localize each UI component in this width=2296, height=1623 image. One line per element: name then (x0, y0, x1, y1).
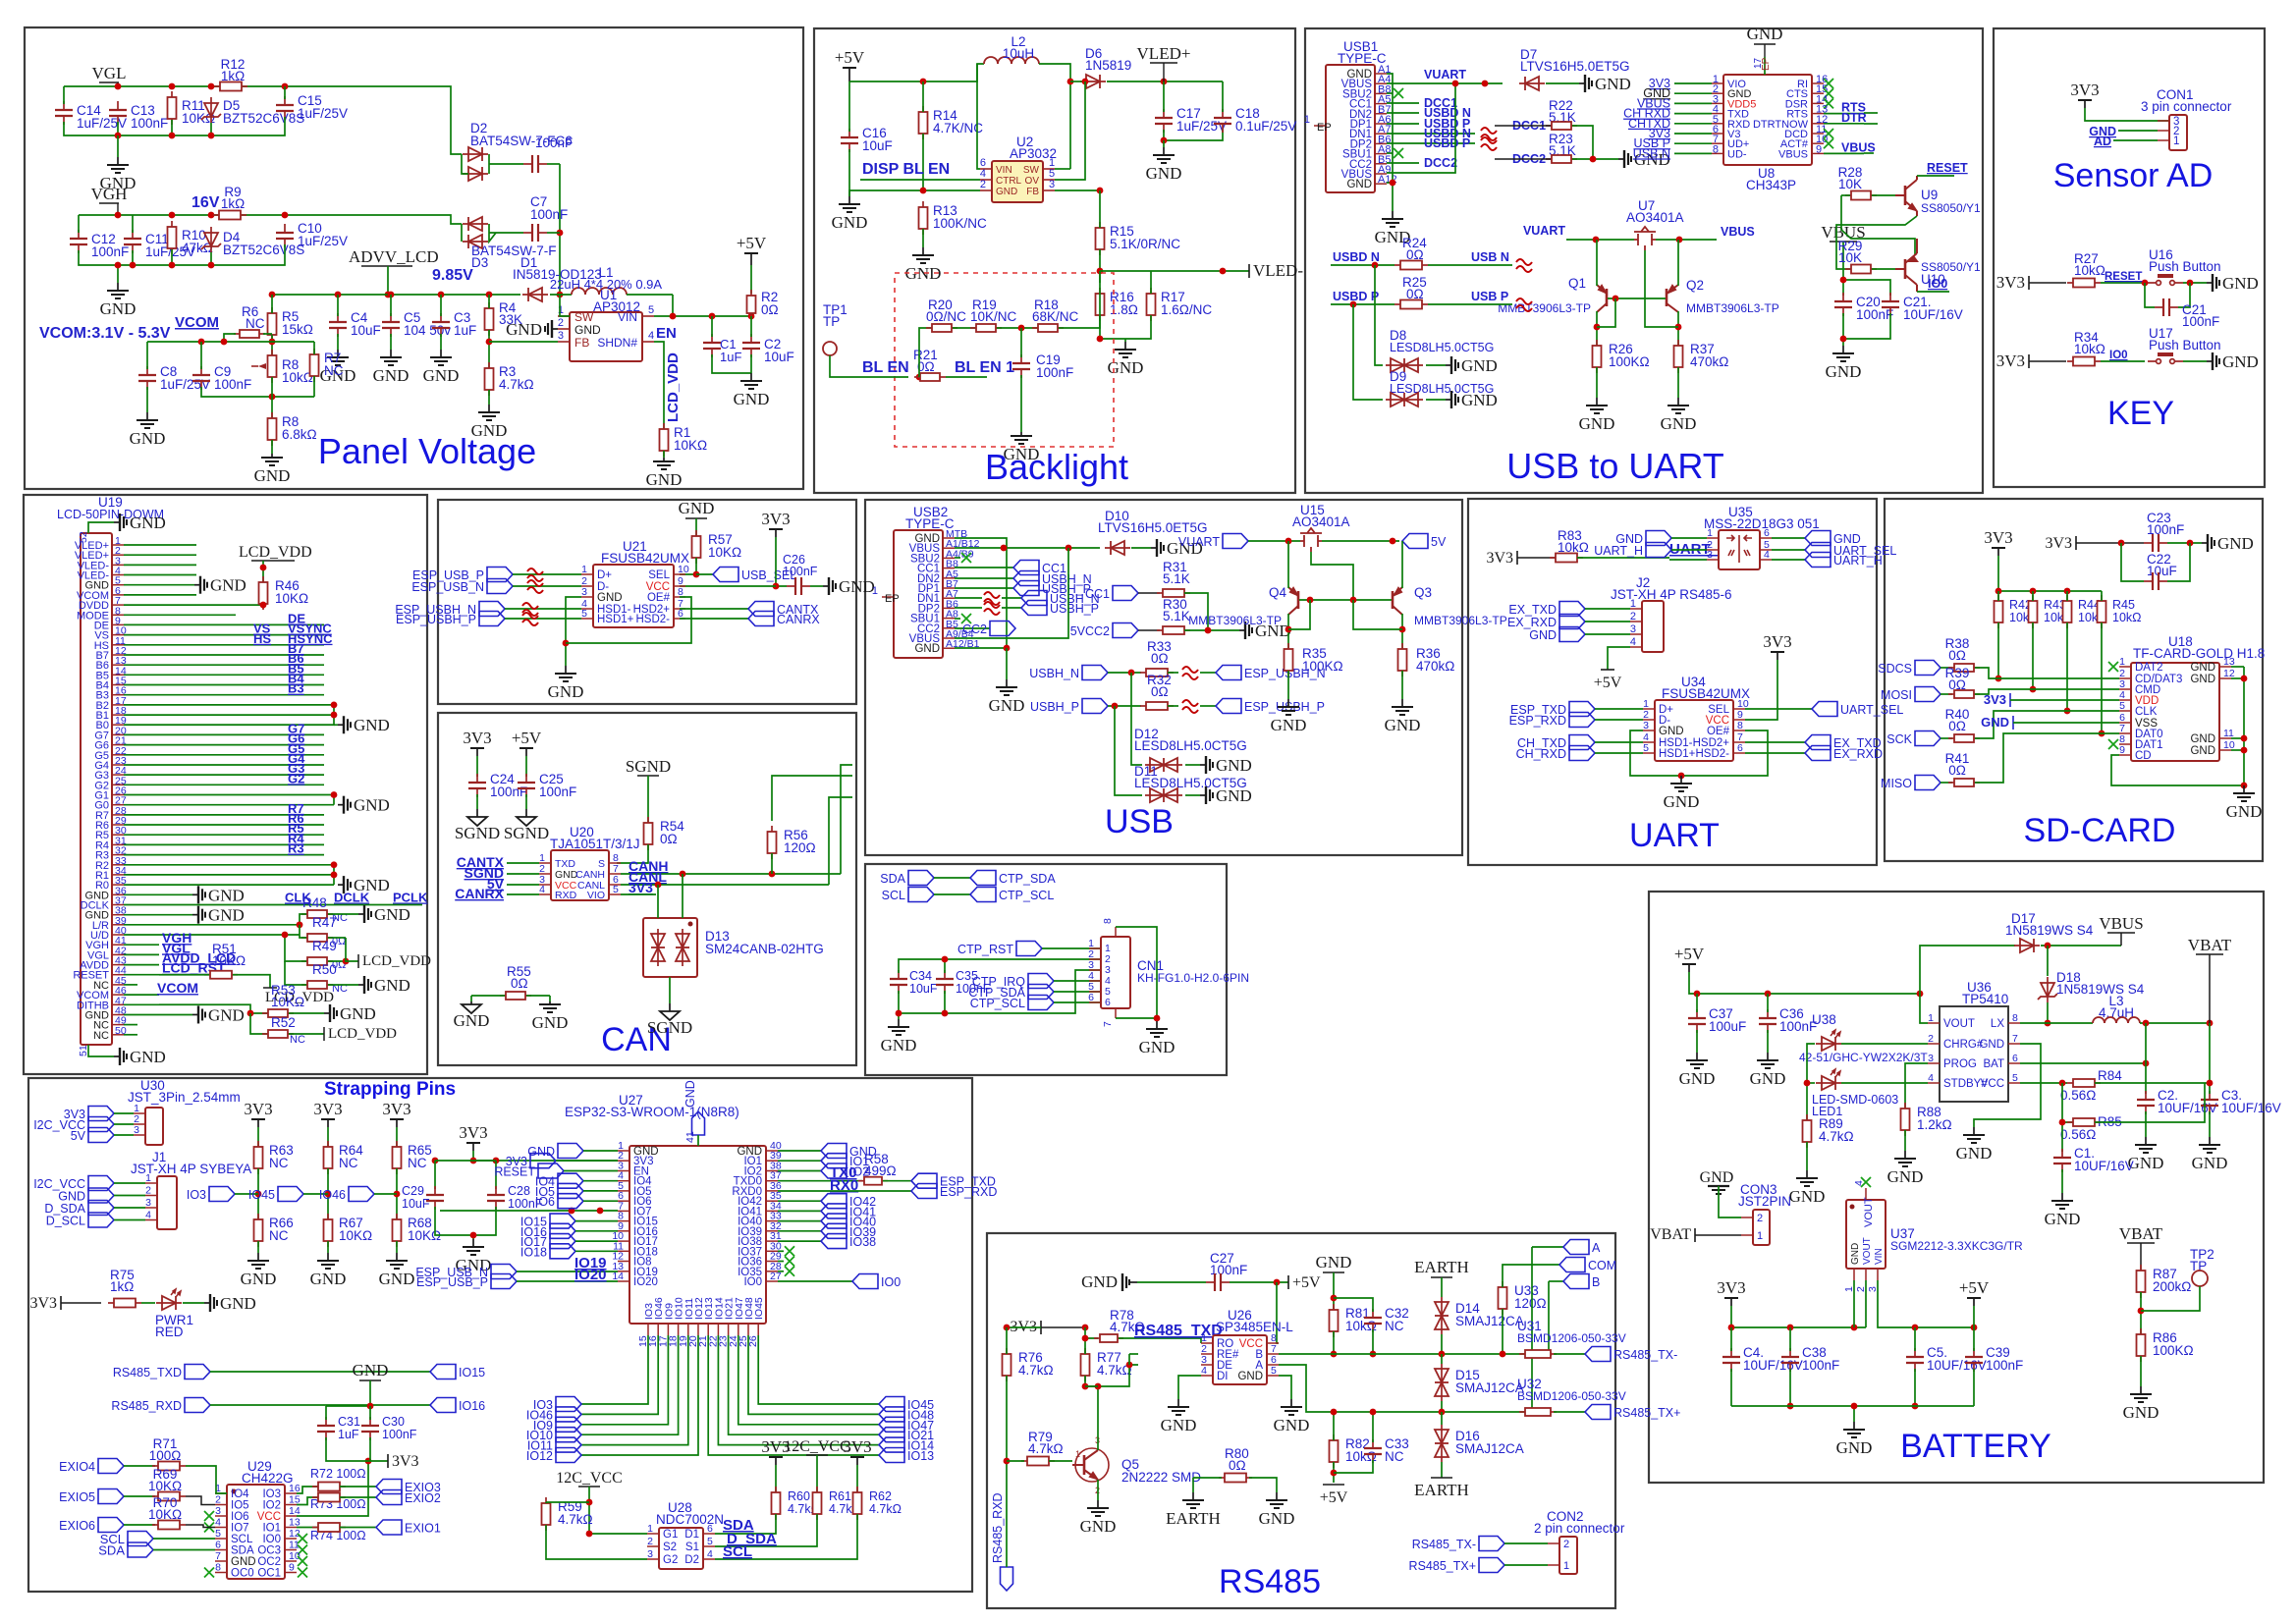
svg-text:10K: 10K (1838, 250, 1862, 265)
svg-text:GND: GND (2222, 274, 2259, 293)
wire DP2 squiggle (1387, 142, 1475, 144)
resistor R59 (542, 1497, 551, 1531)
U36 pin 4 STDBY# (1928, 1082, 1940, 1084)
U19 pin 22 G5 (112, 754, 124, 756)
ground tag U16 (2207, 274, 2219, 292)
capacitor C24 (468, 774, 486, 797)
svg-text:+5V: +5V (512, 729, 542, 747)
svg-text:IO5: IO5 (231, 1500, 249, 1512)
net CC1 R31 (1113, 586, 1138, 601)
svg-text:RS485_TX-: RS485_TX- (1613, 1348, 1677, 1362)
ground tag pin36 (192, 886, 205, 903)
wire BAT row (2020, 1062, 2146, 1064)
power 3V3 U21 (769, 529, 783, 537)
svg-text:GND: GND (1271, 716, 1307, 734)
svg-text:5.1K/0R/NC: 5.1K/0R/NC (1110, 237, 1180, 251)
svg-text:GND: GND (373, 366, 410, 385)
svg-text:1kΩ: 1kΩ (221, 196, 245, 211)
resistor R15 (1096, 222, 1105, 255)
U18 pin 3 CMD (2119, 688, 2131, 690)
U27 pin 29 IO36 (766, 1261, 778, 1263)
wire R8 bottom (271, 377, 273, 417)
resistor R43 (2029, 595, 2038, 628)
svg-text:10uF: 10uF (351, 323, 381, 338)
net CTP_RST (1016, 942, 1042, 956)
J2 pin 1 (1630, 608, 1642, 610)
section frame Sensor AD / KEY (1994, 28, 2265, 487)
net IO17 U27 left (550, 1234, 575, 1249)
U27 pin 38 IO2 (766, 1170, 778, 1172)
svg-text:200kΩ: 200kΩ (2153, 1279, 2191, 1294)
svg-text:5: 5 (2119, 700, 2125, 712)
net ESP_USB_P U27 (491, 1274, 517, 1289)
ground USB1 (1382, 211, 1403, 227)
U36 pin 2 CHRG# (1928, 1043, 1940, 1045)
resistor R64 (324, 1141, 333, 1174)
U18 pin 13 GND (2219, 666, 2231, 668)
svg-text:UART_H: UART_H (1833, 554, 1883, 568)
wire R7 top (272, 341, 314, 343)
power 3V3 R65 (390, 1119, 404, 1127)
ground Q5 (1087, 1500, 1109, 1516)
connector CN1 KH-FG1.0-H2.0-6PIN (1101, 937, 1130, 1008)
svg-text:LCD_VDD: LCD_VDD (239, 544, 312, 561)
wire IO11 fanout (581, 1335, 688, 1445)
net RESET U27 left (538, 1163, 564, 1178)
wire U7 gate down (1645, 250, 1678, 327)
svg-text:USB to UART: USB to UART (1506, 446, 1723, 486)
svg-text:GND: GND (548, 682, 584, 701)
svg-text:VBAT: VBAT (2119, 1224, 2163, 1243)
capacitor C34 (890, 970, 907, 994)
svg-text:LCD_VDD: LCD_VDD (665, 352, 682, 422)
U27 pin 17 IO9 (667, 1324, 669, 1335)
svg-text:FSUSB42UMX: FSUSB42UMX (601, 551, 689, 566)
svg-text:9: 9 (289, 1562, 295, 1574)
U36 pin 1 VOUT (1928, 1022, 1940, 1024)
power 3V3 C29 (466, 1143, 480, 1151)
U8 pin 7 UD+ (1712, 142, 1723, 144)
svg-text:2: 2 (980, 179, 986, 190)
U35 pin 6 (1760, 537, 1772, 539)
svg-text:1uF/25V: 1uF/25V (298, 234, 348, 248)
capacitor C14 (55, 101, 73, 125)
CN1 pin 1 (1089, 947, 1101, 949)
svg-text:10kΩ: 10kΩ (1345, 1319, 1377, 1333)
wire RE DE tie (1128, 1354, 1130, 1365)
svg-text:0Ω: 0Ω (1948, 648, 1966, 663)
svg-text:EARTH: EARTH (1414, 1481, 1469, 1499)
capacitor C21 key (2145, 283, 2155, 307)
U20 pin 1 TXD (539, 862, 551, 864)
wire VCC row u36 (2020, 1082, 2067, 1084)
wire U18 gnd bus (2111, 667, 2244, 785)
svg-text:100nF: 100nF (1856, 307, 1893, 322)
USB2 pin A9/B4 VBUS (943, 637, 955, 639)
section frame LCD connector (24, 495, 427, 1074)
svg-text:8: 8 (1713, 143, 1719, 155)
ground U36 (1963, 1127, 1985, 1143)
svg-text:GND: GND (1659, 726, 1684, 737)
net USBH_P b (955, 607, 982, 609)
svg-text:4.7kΩ: 4.7kΩ (1018, 1363, 1054, 1378)
capacitor C20 (1834, 293, 1852, 316)
svg-text:5: 5 (707, 1536, 713, 1547)
svg-text:CTRL: CTRL (996, 176, 1022, 187)
svg-text:LTVS16H5.0ET5G: LTVS16H5.0ET5G (1520, 59, 1630, 74)
wire Q5 collector (1097, 1386, 1099, 1450)
junction dots ADVV rail (269, 292, 276, 298)
ground C4 (327, 350, 349, 365)
ground C2 (740, 373, 762, 389)
net SDA ctp (908, 871, 934, 886)
svg-text:GND: GND (1661, 414, 1697, 433)
svg-text:100nF: 100nF (214, 377, 251, 392)
svg-text:NC: NC (324, 363, 344, 378)
x-mark SBU2 (1387, 92, 1393, 94)
J2 pin 3 (1630, 633, 1642, 635)
svg-text:IO16: IO16 (459, 1399, 485, 1413)
svg-text:Sensor AD: Sensor AD (2053, 157, 2214, 194)
U27 pin 32 IO39 (766, 1230, 778, 1232)
capacitor C4 (1722, 1348, 1740, 1372)
svg-text:VCC: VCC (257, 1511, 281, 1523)
USB1 pin A6 DP1 (1375, 123, 1387, 125)
U27 pin 10 IO17 (618, 1240, 629, 1242)
svg-text:NC: NC (269, 1228, 289, 1243)
net ESP_USB_N (487, 579, 513, 594)
svg-text:GND: GND (2217, 534, 2254, 553)
net IO4 U27 left (558, 1173, 583, 1188)
capacitor C30 (361, 1417, 379, 1440)
net IO15 U27 left (550, 1214, 575, 1228)
net CANTX mux (680, 608, 748, 610)
net EX_TXD U34 (1745, 741, 1805, 743)
U29 pin 3 IO6 (215, 1515, 227, 1517)
svg-text:GND: GND (354, 796, 390, 815)
U19 pin 14 B5 (112, 674, 124, 676)
svg-text:1: 1 (1707, 527, 1713, 539)
resistor R8b 6.8k (268, 412, 277, 446)
dashed highlight box (895, 273, 1114, 447)
resistor R2 (747, 290, 756, 319)
svg-text:1: 1 (1304, 114, 1310, 126)
U2 pin 3 FB (1043, 189, 1055, 191)
svg-text:CHRG#: CHRG# (1943, 1039, 1984, 1051)
svg-text:IO12: IO12 (526, 1449, 553, 1463)
tvs array D13 SM24CANB-02HTG (643, 918, 697, 977)
svg-text:GND: GND (1700, 1169, 1734, 1186)
svg-text:NC: NC (93, 1030, 109, 1042)
net RS485_TX+ con2 (1479, 1558, 1504, 1573)
capacitor C2 (2137, 1091, 2155, 1114)
svg-text:D1: D1 (684, 1529, 699, 1541)
section frame CAN (438, 713, 856, 1065)
net RESET (1917, 175, 1954, 177)
svg-text:GND: GND (1080, 1517, 1117, 1536)
CON1 pin 2 (2158, 130, 2169, 132)
net GND J2 (1559, 627, 1585, 642)
CN1 pin 2 (1089, 958, 1101, 960)
U20 pin 7 CANH (609, 873, 621, 875)
svg-text:5V: 5V (1431, 535, 1447, 549)
svg-text:RESET: RESET (2105, 271, 2142, 283)
svg-text:BAT: BAT (1983, 1058, 2004, 1070)
svg-text:GND: GND (1789, 1187, 1826, 1206)
ground C20 (1842, 313, 1844, 346)
U20 pin 3 VCC (539, 884, 551, 886)
svg-text:NC: NC (1385, 1449, 1404, 1464)
U21 pin 1 D+ (581, 573, 593, 575)
power 3V3 R60 (769, 1457, 783, 1465)
svg-text:GND: GND (2045, 1210, 2081, 1228)
svg-text:VIN: VIN (996, 165, 1012, 176)
wire IO45 fanout (758, 1335, 879, 1404)
wire R2 R1 R0 join (333, 865, 335, 885)
U21 pin 8 OE# (674, 596, 685, 598)
resistor R85 (2062, 1083, 2073, 1122)
svg-text:BSMD1206-050-33V: BSMD1206-050-33V (1517, 1389, 1626, 1403)
svg-text:3V3: 3V3 (1984, 692, 2006, 707)
U19 pin 37 DCLK (112, 904, 124, 906)
svg-text:SP3485EN-L: SP3485EN-L (1216, 1320, 1293, 1334)
svg-text:GND: GND (2123, 1403, 2159, 1422)
svg-text:4.7kΩ: 4.7kΩ (1028, 1441, 1064, 1456)
svg-text:100nF: 100nF (382, 1428, 417, 1441)
wire U2 SW up (1055, 168, 1070, 170)
ground R66 (247, 1253, 269, 1269)
svg-text:4: 4 (707, 1548, 713, 1560)
U1 pin 5 VIN (642, 315, 654, 317)
svg-text:GND: GND (208, 886, 245, 904)
svg-text:10kΩ: 10kΩ (1345, 1449, 1377, 1464)
U2 pin 2 GND (980, 189, 992, 191)
section frame RS485 (987, 1233, 1615, 1608)
svg-text:IO46: IO46 (319, 1188, 346, 1202)
wire B2 B1 B0 join (124, 705, 334, 725)
svg-text:10KΩ: 10KΩ (271, 995, 304, 1009)
svg-text:100uF: 100uF (1709, 1019, 1746, 1034)
svg-text:KH-FG1.0-H2.0-6PIN: KH-FG1.0-H2.0-6PIN (1137, 971, 1249, 985)
U27 pin 7 IO7 (618, 1210, 629, 1212)
svg-text:GND: GND (340, 1004, 376, 1023)
svg-text:5V: 5V (71, 1129, 86, 1143)
power +5V J2 (1608, 647, 1630, 670)
wire G1 G0 join (333, 795, 335, 805)
net EX_TXD J2 (1559, 602, 1585, 617)
svg-text:SGND: SGND (455, 824, 500, 842)
U8 pin 15 CTS (1812, 92, 1824, 94)
ground R67 (317, 1253, 339, 1269)
svg-text:ESP32-S3-WROOM-1(N8R8): ESP32-S3-WROOM-1(N8R8) (565, 1105, 739, 1119)
signal ground R55 left (470, 996, 472, 1001)
tvs diode D15 (1435, 1364, 1449, 1401)
svg-text:2: 2 (1928, 1033, 1934, 1045)
CON2 pin 1 (1548, 1564, 1559, 1566)
svg-text:R61: R61 (829, 1489, 851, 1503)
svg-text:6: 6 (707, 1523, 713, 1535)
svg-text:3V3: 3V3 (2070, 81, 2099, 99)
svg-text:UART: UART (1629, 817, 1720, 854)
svg-text:0Ω: 0Ω (1229, 1458, 1246, 1473)
U29 pin 10 OC2 (285, 1560, 297, 1562)
wire charge pump vertical (559, 164, 561, 295)
svg-text:SDCS: SDCS (1878, 662, 1912, 676)
svg-text:1kΩ: 1kΩ (110, 1279, 134, 1294)
U34 pin 2 D- (1643, 719, 1655, 721)
svg-text:1: 1 (1928, 1012, 1934, 1024)
power 3V3 R62 (850, 1457, 864, 1465)
svg-text:BZT52C6V8S: BZT52C6V8S (223, 243, 304, 257)
resistor R68 (393, 1214, 402, 1247)
capacitor C37 (1688, 1009, 1706, 1033)
wire VGH top rail (79, 214, 218, 216)
U28 pin 1 G1 (647, 1533, 659, 1535)
svg-text:CTP_SDA: CTP_SDA (999, 872, 1056, 886)
wire IO6 row long (440, 1210, 618, 1212)
svg-text:BZT52C6V8S: BZT52C6V8S (223, 111, 304, 126)
wire U29 VCC up (297, 1461, 368, 1516)
ground C3 (430, 350, 452, 365)
svg-text:CD: CD (2135, 750, 2152, 762)
wire VGH bottom rail (78, 215, 80, 233)
svg-text:2: 2 (1757, 1213, 1763, 1224)
U21 pin 5 HSD1+ (581, 618, 593, 620)
svg-text:1: 1 (1563, 1560, 1569, 1572)
U21 pin 4 HSD1- (581, 608, 593, 610)
USB2 pin B6 DP2 (943, 607, 955, 609)
svg-text:OE#: OE# (1707, 726, 1730, 737)
svg-text:IO3: IO3 (262, 1488, 281, 1500)
svg-text:6: 6 (1088, 992, 1094, 1003)
U8 pin 16 RI (1812, 82, 1824, 84)
svg-text:S1: S1 (685, 1542, 699, 1553)
svg-text:9: 9 (2119, 744, 2125, 756)
U30 pin 3 5V (134, 1134, 145, 1136)
junction BL EN (916, 374, 923, 381)
svg-text:4: 4 (1928, 1072, 1934, 1084)
svg-text:UART_SEL: UART_SEL (1840, 703, 1903, 717)
capacitor C38 (1781, 1348, 1799, 1372)
svg-text:S2: S2 (663, 1542, 677, 1553)
U26 pin 8 VCC (1267, 1342, 1279, 1344)
net LCD_VDD R51 (269, 981, 271, 983)
CON3 pin 2 (1741, 1217, 1753, 1218)
svg-text:GND: GND (1004, 445, 1040, 463)
CN1 pin 7 bottom (1115, 1008, 1117, 1018)
U27 pin 40 GND (766, 1150, 778, 1152)
ground VGL (117, 135, 119, 157)
svg-text:VIN: VIN (1874, 1248, 1885, 1265)
wire CANH exit (841, 765, 852, 874)
net CC2 usb2 (955, 627, 990, 629)
resistor R42 (1995, 595, 2003, 628)
x-mark DAT1 (2108, 739, 2118, 749)
power 3V3 sensor (2078, 100, 2092, 108)
capacitor C29 (426, 1186, 444, 1210)
net A rs485 (1532, 1246, 1563, 1248)
wire U34 GND OE# (1630, 730, 1681, 776)
svg-text:100nF: 100nF (2182, 314, 2219, 329)
led PWR1 RED (156, 1296, 182, 1310)
ground C1 battery (2051, 1193, 2073, 1209)
svg-text:D3: D3 (471, 255, 488, 270)
ground U21 (555, 666, 576, 681)
svg-text:10UF/16V: 10UF/16V (2221, 1101, 2281, 1115)
ground R89 (1796, 1170, 1818, 1186)
diode D2 BAT54SW-7-FC6 (463, 147, 488, 161)
svg-text:HSD2-: HSD2- (1695, 748, 1729, 760)
svg-text:GND: GND (734, 390, 770, 408)
U19 pin 8 MODE (112, 614, 124, 616)
resistor R56 (768, 826, 777, 859)
section frame BATTERY (1649, 892, 2264, 1483)
svg-text:USB: USB (1105, 803, 1174, 840)
svg-text:GND: GND (1836, 1438, 1873, 1457)
U1 pin 1 SW (558, 315, 570, 317)
svg-text:10uF: 10uF (862, 138, 893, 153)
svg-text:USB P: USB P (1471, 290, 1508, 303)
svg-text:41: 41 (684, 1131, 696, 1143)
wire Q bases (1608, 298, 1666, 299)
ground battery rail (1843, 1422, 1865, 1437)
svg-text:VIO: VIO (587, 890, 605, 901)
svg-text:GND: GND (574, 323, 601, 337)
svg-text:5: 5 (215, 1528, 221, 1540)
U27 pin 3 EN (618, 1170, 629, 1172)
USB2 pin B7 DP1 (943, 587, 955, 589)
U34 pin 4 HSD1- (1643, 741, 1655, 743)
net ESP_USBH_N (479, 602, 505, 617)
inductor L1 (572, 288, 627, 295)
svg-text:10K: 10K (1838, 177, 1862, 191)
wire C27 row (1137, 1281, 1206, 1283)
U19 pin 20 G7 (112, 733, 124, 735)
svg-text:EXIO5: EXIO5 (59, 1490, 95, 1504)
ground U34 (1670, 776, 1692, 791)
svg-text:3V3: 3V3 (392, 1453, 419, 1470)
svg-text:TJA1051T/3/1J: TJA1051T/3/1J (550, 837, 640, 851)
IC U37 SGM2212-3.3XKC3G/TR (1846, 1200, 1886, 1269)
svg-text:D_SCL: D_SCL (46, 1215, 85, 1228)
svg-text:1: 1 (647, 1523, 653, 1535)
wire sd pullup rail (1998, 590, 2102, 592)
svg-text:GND: GND (208, 1005, 245, 1024)
svg-text:GND: GND (1461, 356, 1498, 375)
capacitor C16 (841, 129, 858, 152)
resistor R9 (213, 211, 246, 220)
wire U21 OE# (566, 597, 691, 643)
U37 pin 1 GND (1853, 1269, 1855, 1280)
svg-text:7: 7 (2012, 1033, 2018, 1045)
svg-text:1uF/25V: 1uF/25V (77, 116, 127, 131)
svg-text:+5V: +5V (1674, 945, 1705, 963)
U18 pin 11 GND (2219, 737, 2231, 739)
svg-text:GND: GND (130, 514, 166, 532)
svg-text:1uF: 1uF (338, 1428, 359, 1441)
resistor R20 (926, 324, 957, 332)
U19 pin 11 HS (112, 644, 124, 646)
svg-text:R48: R48 (302, 895, 327, 910)
svg-text:GND: GND (379, 1270, 415, 1288)
svg-text:LTVS16H5.0ET5G: LTVS16H5.0ET5G (1098, 520, 1208, 535)
wire C31 C30 3V3 (326, 1437, 388, 1461)
svg-text:0.56Ω: 0.56Ω (2060, 1088, 2096, 1103)
svg-text:CC1: CC1 (1085, 587, 1110, 601)
USB2 pin EP (882, 596, 894, 598)
svg-text:SCL: SCL (882, 889, 905, 902)
svg-text:4: 4 (1853, 1180, 1865, 1186)
